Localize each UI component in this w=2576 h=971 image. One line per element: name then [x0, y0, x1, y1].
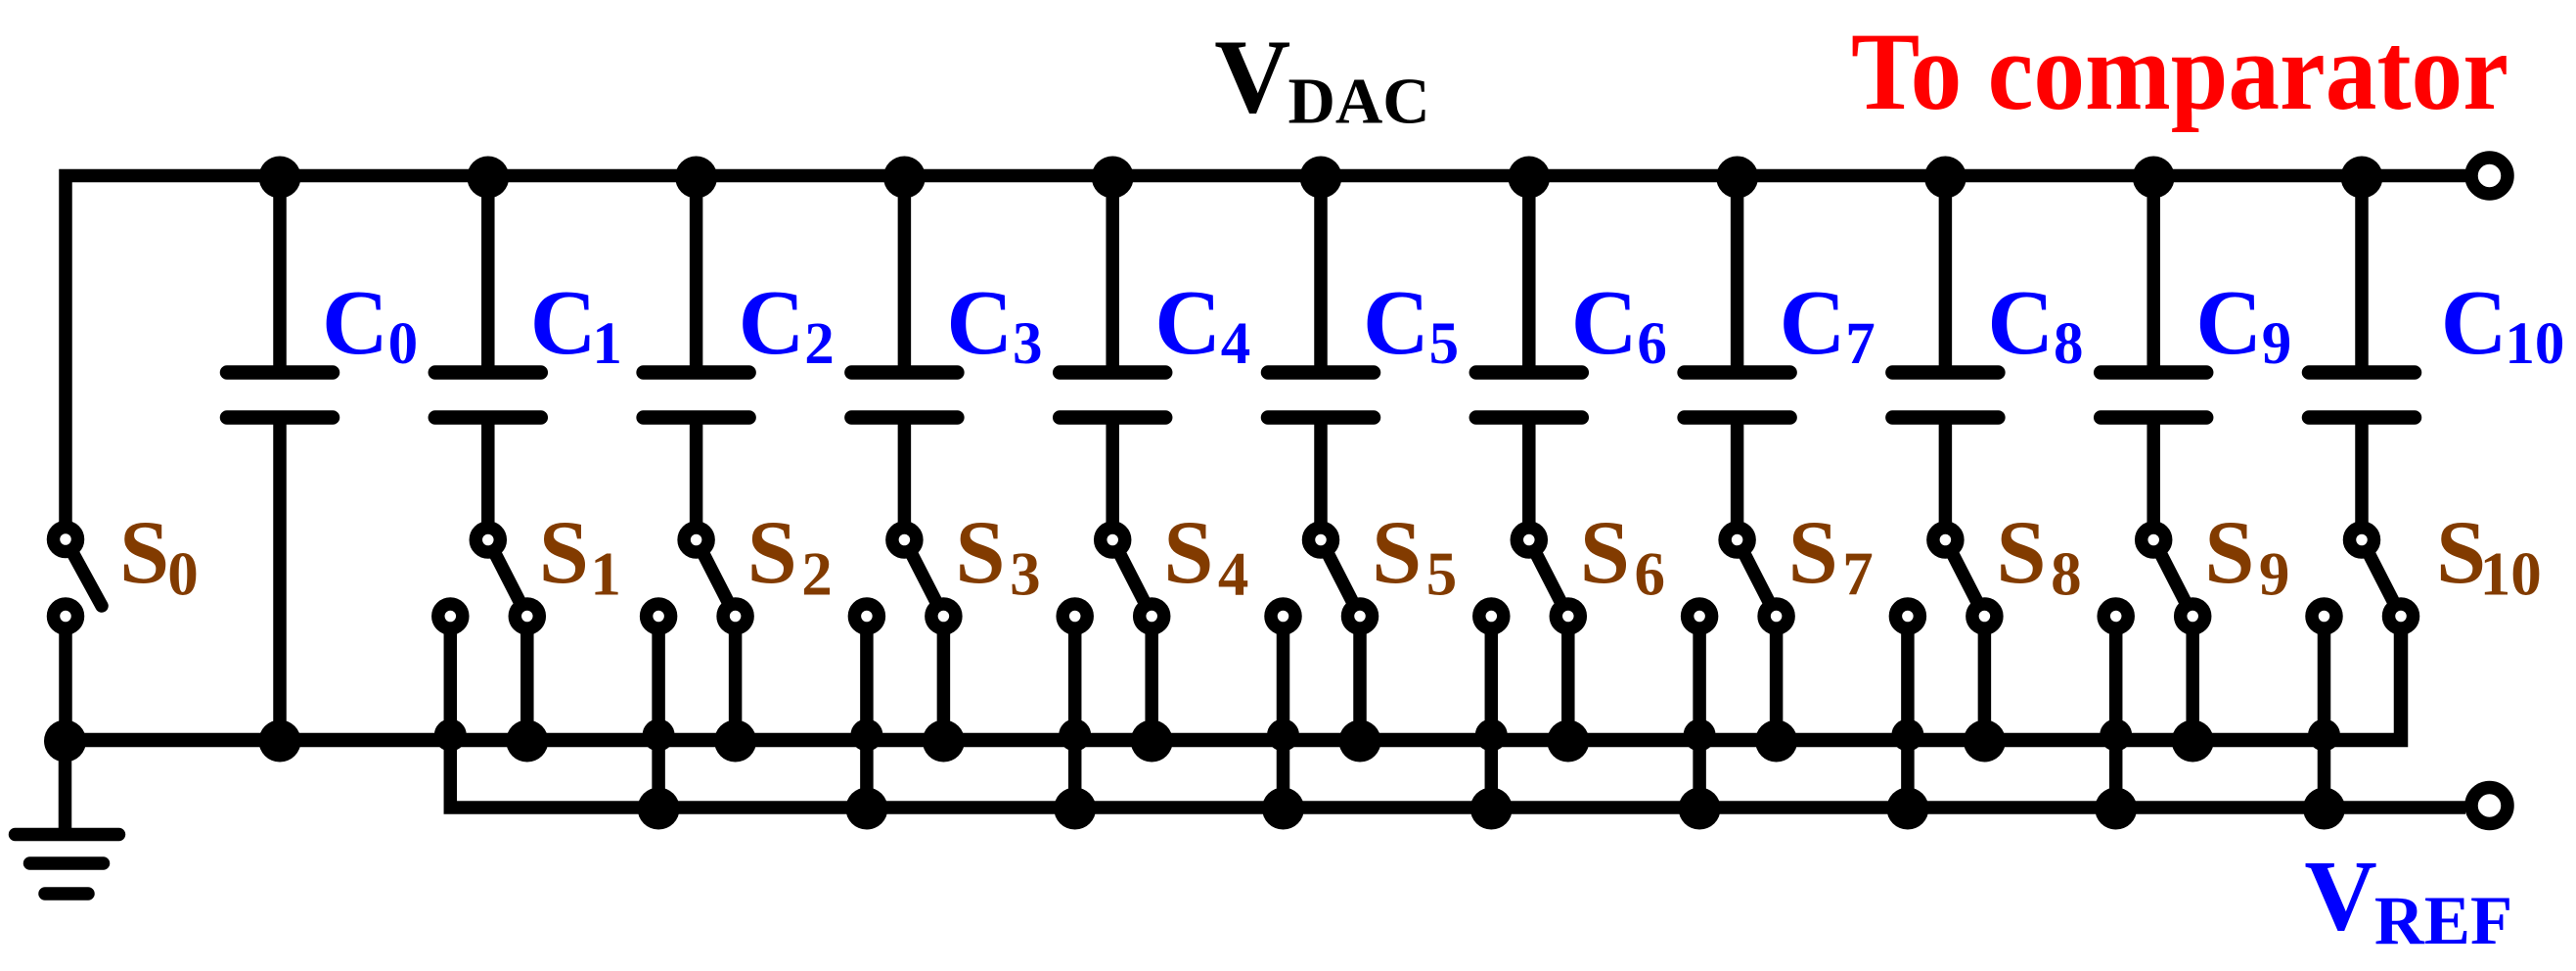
svg-text:V: V — [2304, 841, 2376, 952]
svg-text:5: 5 — [1429, 311, 1460, 377]
svg-text:10: 10 — [2505, 311, 2564, 377]
svg-text:C: C — [322, 272, 388, 374]
svg-text:3: 3 — [1010, 540, 1041, 609]
svg-text:C: C — [1780, 272, 1846, 374]
svg-text:S: S — [2436, 502, 2486, 602]
svg-text:C: C — [1154, 272, 1221, 374]
svg-text:S: S — [1372, 502, 1422, 602]
svg-text:To comparator: To comparator — [1851, 11, 2508, 133]
svg-text:DAC: DAC — [1288, 65, 1430, 137]
svg-text:1: 1 — [590, 540, 621, 609]
svg-text:C: C — [2441, 272, 2508, 374]
svg-text:1: 1 — [592, 311, 622, 377]
svg-text:S: S — [1996, 502, 2046, 602]
svg-text:V: V — [1214, 19, 1290, 135]
svg-text:C: C — [530, 272, 597, 374]
svg-text:5: 5 — [1426, 540, 1458, 609]
svg-text:10: 10 — [2480, 540, 2542, 609]
svg-text:C: C — [946, 272, 1013, 374]
svg-text:C: C — [2195, 272, 2262, 374]
svg-text:7: 7 — [1842, 540, 1874, 609]
svg-text:6: 6 — [1637, 311, 1667, 377]
svg-text:S: S — [747, 502, 797, 602]
svg-text:8: 8 — [2054, 311, 2084, 377]
svg-text:9: 9 — [2262, 311, 2292, 377]
svg-text:8: 8 — [2051, 540, 2082, 609]
svg-text:7: 7 — [1845, 311, 1876, 377]
svg-text:4: 4 — [1218, 540, 1249, 609]
svg-text:0: 0 — [388, 311, 419, 377]
svg-text:3: 3 — [1013, 311, 1043, 377]
svg-text:2: 2 — [801, 540, 833, 609]
svg-text:S: S — [1163, 502, 1213, 602]
svg-text:C: C — [1571, 272, 1638, 374]
svg-text:C: C — [1363, 272, 1429, 374]
svg-text:S: S — [2204, 502, 2254, 602]
svg-text:S: S — [539, 502, 589, 602]
svg-text:S: S — [1580, 502, 1630, 602]
svg-text:REF: REF — [2374, 883, 2512, 959]
svg-text:S: S — [119, 502, 169, 602]
svg-text:0: 0 — [167, 540, 199, 609]
svg-text:2: 2 — [804, 311, 835, 377]
svg-text:C: C — [1987, 272, 2054, 374]
svg-text:4: 4 — [1221, 311, 1251, 377]
svg-text:9: 9 — [2259, 540, 2290, 609]
svg-text:C: C — [739, 272, 805, 374]
svg-text:S: S — [1788, 502, 1838, 602]
svg-text:S: S — [955, 502, 1005, 602]
svg-text:6: 6 — [1635, 540, 1666, 609]
